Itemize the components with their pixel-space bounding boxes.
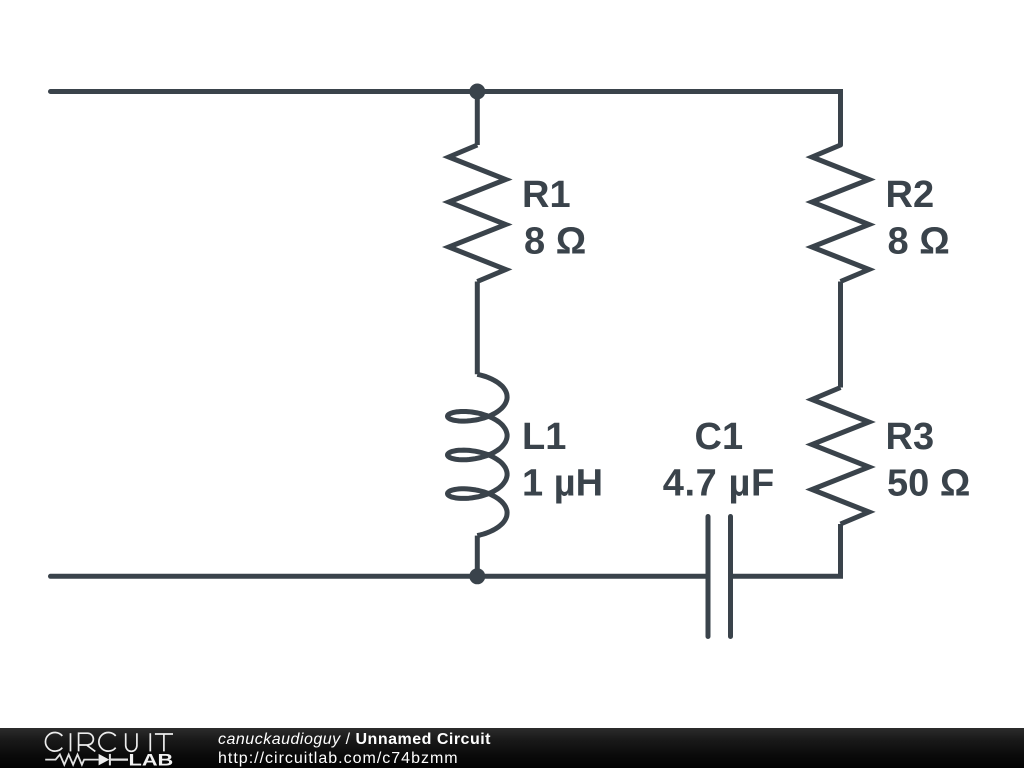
logo resistor zigzag (45, 754, 128, 766)
capacitor C1 plate left (706, 517, 711, 637)
svg-text:R3: R3 (886, 416, 935, 458)
resistor R1 (449, 145, 506, 282)
logo letter I (70, 733, 72, 751)
wire R1-L1 (475, 282, 480, 375)
logo letter C (45, 733, 62, 752)
CircuitLab logo wordmark CIRCUIT (custom thin strokes) (45, 733, 173, 752)
wire R1 top lead (475, 92, 480, 146)
logo diode triangle (99, 754, 110, 766)
wire R2-R3 (838, 282, 843, 388)
footer bar (0, 728, 1024, 768)
logo letter I (149, 733, 151, 751)
wire L1 bottom lead (475, 536, 480, 577)
svg-text:8 Ω: 8 Ω (524, 221, 586, 263)
logo letter T (155, 734, 173, 751)
logo letter U (126, 733, 137, 751)
wire bottom net left (51, 574, 709, 579)
inductor L1 coil (448, 374, 508, 535)
svg-text:R2: R2 (886, 174, 935, 216)
logo letter C (99, 733, 116, 752)
node junction dot top (469, 84, 485, 100)
resistor R2 (812, 145, 869, 282)
logo wire to LAB (111, 758, 129, 760)
capacitor C1 plate right (728, 517, 733, 637)
wire top net (51, 92, 841, 146)
svg-text:50 Ω: 50 Ω (887, 463, 970, 505)
logo diode cathode bar (109, 754, 111, 766)
svg-text:R1: R1 (522, 174, 571, 216)
wire C1 to right branch and R3 bottom lead (731, 524, 841, 576)
svg-text:L1: L1 (522, 416, 566, 458)
node junction dot bottom (469, 568, 485, 584)
svg-text:C1: C1 (695, 416, 744, 458)
logo letter R (79, 733, 96, 751)
svg-text:1 µH: 1 µH (522, 463, 603, 505)
svg-text:4.7 µF: 4.7 µF (663, 463, 775, 505)
resistor R3 (812, 388, 869, 525)
svg-text:8 Ω: 8 Ω (888, 221, 950, 263)
